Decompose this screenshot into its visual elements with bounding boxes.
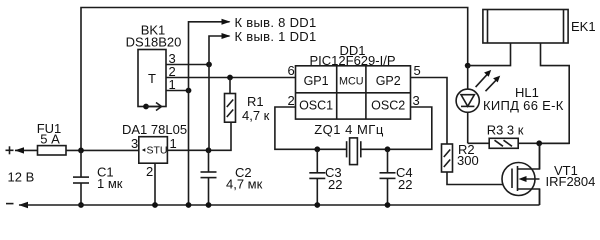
- svg-text:К выв. 1 DD1: К выв. 1 DD1: [235, 29, 317, 44]
- wire DA1 pin2 to ground: [154, 163, 156, 205]
- svg-text:4,7 мк: 4,7 мк: [226, 177, 263, 192]
- junction dot +5 rail / C2 / VDD riser: [206, 147, 212, 153]
- wire +12V top bus from node A up and across to node B: [81, 8, 468, 151]
- resistor R1: [225, 78, 236, 123]
- svg-text:DS18B20: DS18B20: [126, 35, 182, 50]
- svg-text:КИПД 66 Е-К: КИПД 66 Е-К: [483, 98, 564, 113]
- label KIPD 66 E-K: [483, 98, 564, 113]
- label K vyv. 1 DD1: [235, 29, 317, 44]
- junction dot C2 / ground rail: [206, 202, 212, 208]
- label 5 A: [40, 132, 60, 147]
- capacitor C4: [380, 149, 396, 205]
- heating element EK1: [483, 10, 568, 44]
- svg-text:T: T: [148, 71, 156, 86]
- junction dot DA1 pin2 / ground rail: [152, 202, 158, 208]
- junction dot C1 / ground rail: [78, 202, 84, 208]
- ground rail (minus): [19, 204, 540, 206]
- pin 2 label BK1: [169, 64, 176, 79]
- capacitor C1: [73, 150, 89, 205]
- microcontroller DD1 PIC12F629: [296, 66, 411, 119]
- label K vyv. 8 DD1: [235, 15, 317, 30]
- svg-text:300: 300: [457, 153, 479, 168]
- wire VDD riser to pin1 DD1 arrow and +5 rail: [209, 36, 230, 150]
- wire BK1 pin2 to DD1 pin6 (DQ line): [166, 77, 296, 79]
- label DA1 78L05: [122, 122, 187, 137]
- pin 1 label DA1: [170, 136, 177, 151]
- junction dot C3 top: [314, 146, 320, 152]
- wire VT1 source to ground rail: [539, 189, 541, 205]
- junction dot C4 / ground rail: [385, 202, 391, 208]
- label HL1: [515, 85, 539, 100]
- svg-text:OSC2: OSC2: [371, 99, 405, 113]
- pin 1 label BK1: [169, 77, 176, 92]
- svg-text:OSC1: OSC1: [299, 99, 333, 113]
- pin 6 label DD1: [288, 63, 295, 78]
- label 12 V: [8, 169, 35, 184]
- pin 5 label DD1: [414, 63, 421, 78]
- wire DD1 pin2 down to oscillator line: [275, 107, 347, 149]
- LED emission arrow 1: [476, 70, 492, 87]
- svg-text:DA1 78L05: DA1 78L05: [122, 122, 187, 137]
- svg-text:22: 22: [328, 177, 342, 192]
- junction dot R1 top on DQ line: [227, 75, 233, 81]
- svg-text:5: 5: [414, 63, 421, 78]
- label 4,7 mk: [226, 177, 263, 192]
- junction dot C4 top: [385, 146, 391, 152]
- transistor VT1 IRF2804: [502, 143, 540, 205]
- svg-text:К выв. 8 DD1: К выв. 8 DD1: [235, 15, 317, 30]
- svg-text:PIC12F629-I/P: PIC12F629-I/P: [310, 53, 396, 68]
- capacitor C3: [309, 149, 325, 205]
- label PIC12F629-I/P: [310, 53, 396, 68]
- fuse FU1: [38, 146, 67, 155]
- wire HL1 cathode to R3: [468, 142, 490, 144]
- label 22: [398, 177, 412, 192]
- label 22: [328, 177, 342, 192]
- svg-text:MCU: MCU: [339, 75, 364, 87]
- wire +12V rail left input to DA1 pin3: [15, 149, 139, 151]
- minus sign: [6, 203, 14, 205]
- junction dot BK1 pin3 / VDD riser: [206, 62, 212, 68]
- wire drain node down to VT1 drain: [539, 143, 541, 169]
- label DS18B20: [126, 35, 182, 50]
- wire +5V rail DA1 pin1 to R1 bottom corner: [167, 122, 231, 150]
- wire EK1 right lead down to drain node: [539, 43, 569, 143]
- junction dot drain node: [536, 140, 542, 146]
- wire BK1 pin1 to ground line: [166, 90, 189, 92]
- label R1: [247, 94, 264, 109]
- svg-text:3: 3: [413, 93, 420, 108]
- label IRF2804: [546, 174, 596, 189]
- plus sign: [6, 146, 14, 154]
- crystal ZQ1: [347, 138, 361, 165]
- plus terminal arrow: [15, 147, 24, 153]
- svg-text:ZQ1 4 МГц: ZQ1 4 МГц: [314, 122, 384, 137]
- label 300: [457, 153, 479, 168]
- label VT1: [554, 163, 578, 178]
- label R2: [458, 142, 475, 157]
- label C2: [235, 165, 252, 180]
- svg-text:GP2: GP2: [376, 74, 401, 88]
- LED emission arrow 2: [486, 76, 501, 92]
- svg-text:2: 2: [146, 164, 153, 179]
- label C3: [325, 165, 342, 180]
- junction dot ground riser / ground rail: [186, 202, 192, 208]
- wire DD1 pin3 down to oscillator line: [361, 107, 432, 149]
- resistor R2: [442, 144, 453, 172]
- svg-text:R3 3 к: R3 3 к: [487, 123, 524, 138]
- label C1: [97, 165, 114, 180]
- svg-text:1 мк: 1 мк: [97, 176, 123, 191]
- resistor R3: [489, 138, 518, 148]
- wire R3 right to drain node: [518, 142, 569, 144]
- LED HL1: [456, 66, 479, 144]
- wire ground riser to pin8 DD1 arrow and ground rail: [189, 22, 230, 205]
- svg-text:5 А: 5 А: [40, 132, 60, 147]
- pin 3 label DA1: [131, 136, 138, 151]
- pin 3 label BK1: [169, 51, 176, 66]
- svg-text:2: 2: [288, 93, 295, 108]
- regulator DA1 78L05: [139, 137, 168, 164]
- label C4: [396, 165, 413, 180]
- svg-text:22: 22: [398, 177, 412, 192]
- svg-text:12 В: 12 В: [8, 169, 35, 184]
- arrowhead to pin 1 DD1: [222, 33, 231, 39]
- label 1 mk: [97, 176, 123, 191]
- wire node B to EK1 left lead: [468, 43, 511, 66]
- minus terminal arrow: [19, 202, 28, 208]
- arrowhead to pin 8 DD1: [222, 19, 231, 25]
- wire BK1 pin3 to VDD node: [166, 64, 209, 66]
- svg-text:3: 3: [131, 136, 138, 151]
- wire R2 bottom to VT1 gate: [447, 172, 512, 185]
- pin 2 label DA1: [146, 164, 153, 179]
- svg-text:6: 6: [288, 63, 295, 78]
- svg-text:EK1: EK1: [571, 19, 596, 34]
- pin 3 label DD1: [413, 93, 420, 108]
- svg-text:R1: R1: [247, 94, 264, 109]
- sensor bottom dot and arrow: [143, 103, 161, 111]
- junction dot BK1 pin1 / ground riser: [186, 88, 192, 94]
- label R3 3 k: [487, 123, 524, 138]
- label DD1: [339, 43, 365, 58]
- svg-text:4,7 к: 4,7 к: [242, 108, 270, 123]
- capacitor C2: [201, 150, 217, 205]
- junction dot C3 / ground rail: [314, 202, 320, 208]
- pin 2 label DD1: [288, 93, 295, 108]
- label ZQ1 4 MHz: [314, 122, 384, 137]
- svg-text:1: 1: [170, 136, 177, 151]
- temperature sensor BK1 DS18B20: [138, 50, 166, 107]
- wire DD1 pin5 to R2: [411, 78, 448, 145]
- label 4,7 k: [242, 108, 270, 123]
- svg-text:GP1: GP1: [304, 74, 329, 88]
- label BK1: [141, 23, 166, 38]
- label EK1: [571, 19, 596, 34]
- label FU1: [37, 121, 62, 136]
- svg-text:IRF2804: IRF2804: [546, 174, 596, 189]
- node A junction dot +12 rail / C1 / top bus: [78, 148, 84, 154]
- node B junction dot top bus / EK1 / HL1: [465, 63, 471, 69]
- svg-text:STU: STU: [147, 145, 168, 157]
